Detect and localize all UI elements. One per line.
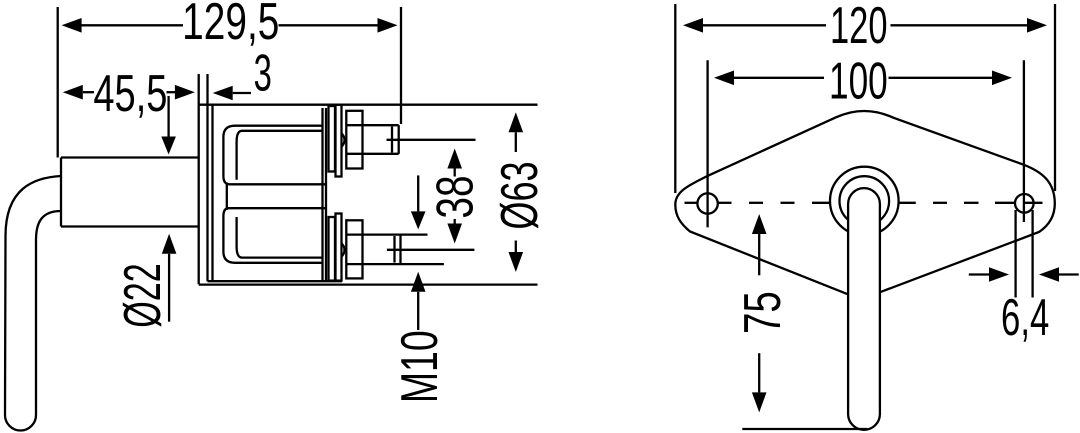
dimension line 129,5 — [62, 18, 398, 33]
removable lever key (side view) — [5, 176, 61, 431]
lower terminal hex nut — [346, 220, 362, 278]
dimension 75 arrows — [752, 214, 767, 412]
central boss outer circle — [830, 167, 899, 236]
housing top line / Ø63 upper extension — [199, 104, 538, 106]
lower terminal insulating washer 2 — [336, 214, 342, 281]
extension line right (120) — [1054, 4, 1056, 191]
extension line left (120) — [674, 4, 676, 193]
lower terminal insulating washer 1 — [329, 217, 336, 281]
dimension Ø63 arrows — [509, 112, 524, 272]
lever end extension line (75) — [742, 428, 867, 430]
mounting plate front face — [198, 74, 200, 284]
extension line left hole (100) — [706, 60, 708, 227]
dimension line 3 — [213, 86, 251, 101]
dimension line 100 — [714, 71, 1012, 86]
central boss middle circle — [840, 176, 890, 226]
left mounting hole Ø6,4 — [697, 193, 717, 213]
svg-text:6,4: 6,4 — [1001, 289, 1049, 347]
M10 upper pointer arrow (down) — [411, 175, 426, 229]
housing front wall — [211, 105, 213, 282]
housing bottom line / Ø63 lower extension — [199, 283, 538, 285]
center slot — [227, 183, 326, 210]
upper stud centerline extension — [387, 139, 476, 141]
dimension line 45,5 — [63, 85, 195, 100]
lower nut chamfer — [342, 244, 345, 257]
extension line left (129,5 / 45,5 datum) — [57, 7, 59, 158]
extension line right of 129,5 — [400, 7, 402, 124]
upper terminal insulating washer 1 — [329, 106, 336, 172]
svg-text:75: 75 — [733, 291, 791, 334]
upper nut chamfer — [342, 134, 345, 147]
mounting plate rear face — [206, 74, 208, 281]
svg-text:3: 3 — [254, 45, 272, 102]
svg-text:129,5: 129,5 — [182, 0, 279, 50]
lever shaft (front view) with round ends — [848, 188, 880, 430]
terminal base plate — [321, 108, 323, 281]
lower stud centerline extension — [387, 249, 475, 251]
upper terminal insulating washer 2 — [336, 105, 342, 177]
leader arrow down to shaft (45,5) — [161, 96, 176, 155]
dimension 38 arrows — [447, 149, 462, 244]
svg-text:100: 100 — [829, 53, 888, 110]
svg-text:M10: M10 — [390, 330, 449, 403]
extension line right hole (100) — [1023, 60, 1025, 222]
center dashed line — [685, 202, 1043, 204]
svg-text:120: 120 — [830, 0, 888, 55]
housing inner bottom line — [208, 280, 343, 282]
dimension line 120 — [683, 18, 1047, 33]
coil housing outer lobes — [223, 126, 322, 185]
6,4 extension lines — [1014, 210, 1016, 298]
M10 lower pointer arrow (up) — [411, 272, 426, 330]
diamond flange outline — [675, 111, 1055, 294]
6,4 arrows — [969, 267, 1079, 282]
right mounting hole Ø6,4 — [1015, 194, 1034, 213]
svg-text:Ø63: Ø63 — [491, 161, 549, 229]
svg-text:38: 38 — [425, 175, 484, 218]
leader arrow up to cylinder (Ø22) — [162, 234, 177, 322]
lower terminal stud M10 — [346, 235, 444, 265]
svg-text:45,5: 45,5 — [93, 64, 167, 122]
upper terminal stud M10 — [346, 125, 399, 154]
operating shaft cylinder Ø22 — [61, 158, 199, 227]
upper terminal hex nut — [346, 111, 362, 169]
coil housing inner lobes — [237, 131, 322, 180]
svg-text:Ø22: Ø22 — [114, 263, 172, 327]
